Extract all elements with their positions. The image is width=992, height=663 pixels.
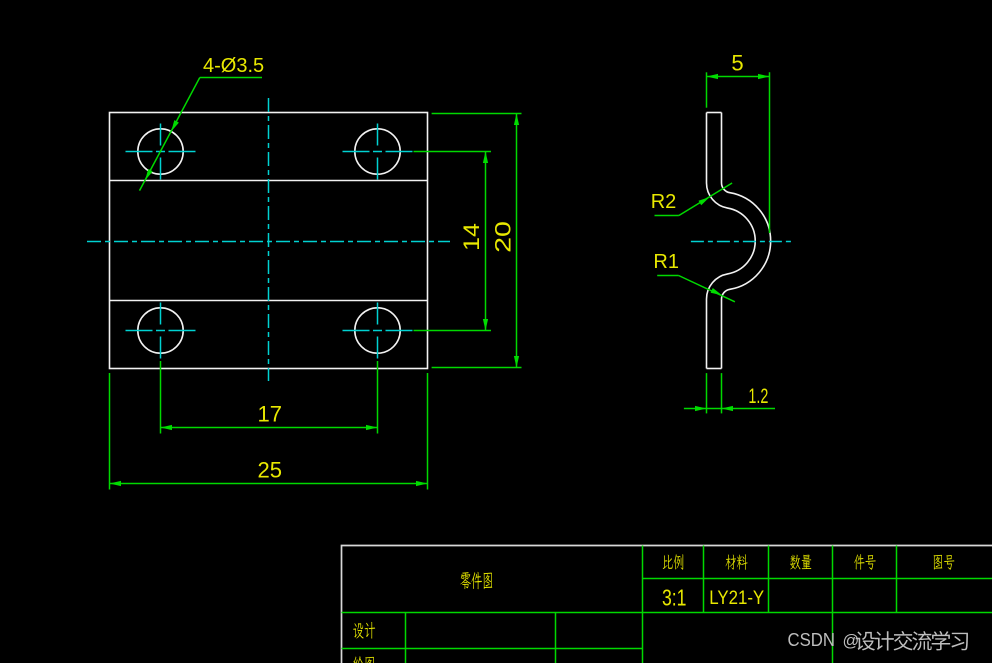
hole top-left centermark [126, 124, 196, 180]
svg-text:14: 14 [459, 223, 483, 251]
dimension 14 arrows [483, 152, 488, 164]
leader R1 [657, 276, 735, 302]
side view top cap [707, 112, 722, 114]
svg-text:20: 20 [492, 221, 516, 253]
dimension 5 arrows [707, 74, 719, 79]
lower bend line [110, 300, 428, 302]
table text 设计 [353, 623, 363, 638]
table text 零件图 [460, 572, 471, 589]
hole bottom-right [355, 308, 400, 353]
dimension 1.2 arrows [695, 406, 707, 411]
table header 数量 [790, 555, 800, 570]
side view bottom cap [707, 368, 722, 370]
table header 比例 [663, 555, 673, 569]
side view profile left face [707, 113, 756, 369]
side view centerline [691, 241, 792, 243]
hole bottom-left centermark [126, 303, 196, 359]
dimension 14 extension lines [414, 152, 492, 331]
svg-text:3:1: 3:1 [662, 585, 687, 611]
svg-text:17: 17 [257, 401, 281, 426]
hole top-right centermark [343, 124, 413, 180]
dimension 17 arrows [161, 425, 173, 430]
table header 材料 [726, 555, 736, 570]
svg-text:5: 5 [731, 51, 743, 76]
svg-text:@: @ [843, 632, 860, 650]
title block green grid [342, 546, 992, 663]
hole top-right [355, 129, 400, 174]
svg-text:1.2: 1.2 [748, 385, 768, 408]
upper bend line [110, 180, 428, 182]
leader R2 [655, 183, 733, 216]
side view profile right face [721, 113, 770, 369]
table header 图号 [934, 555, 943, 570]
table header 件号 [854, 554, 865, 570]
svg-text:R2: R2 [651, 191, 677, 213]
hole top-left [138, 129, 183, 174]
title block outer border (white) [342, 546, 992, 663]
leader 4-dia3.5 arrows [171, 120, 179, 131]
svg-text:LY21-Y: LY21-Y [709, 588, 764, 609]
vertical centerline front view [268, 98, 270, 381]
hole bottom-right centermark [343, 303, 413, 359]
hole bottom-left [138, 308, 183, 353]
svg-text:R1: R1 [653, 251, 679, 273]
horizontal centerline front view [87, 241, 450, 243]
watermark chinese [856, 632, 875, 651]
dimension 25 extension lines [110, 373, 428, 490]
dimension 1.2 extension lines [684, 373, 775, 413]
dimension 5 extension lines [707, 72, 770, 233]
leader 4-dia3.5 line [140, 78, 263, 191]
table text 绘图 (cut) [353, 656, 363, 663]
svg-text:25: 25 [257, 457, 281, 482]
dimension 17 extension lines [161, 361, 378, 434]
svg-text:4-Ø3.5: 4-Ø3.5 [203, 55, 264, 77]
dimension 20 extension lines [432, 114, 522, 368]
plate outline (front view) [110, 113, 428, 369]
dimension 25 arrows [110, 481, 122, 486]
dimension 20 arrows [514, 114, 519, 126]
svg-text:CSDN: CSDN [788, 629, 836, 650]
